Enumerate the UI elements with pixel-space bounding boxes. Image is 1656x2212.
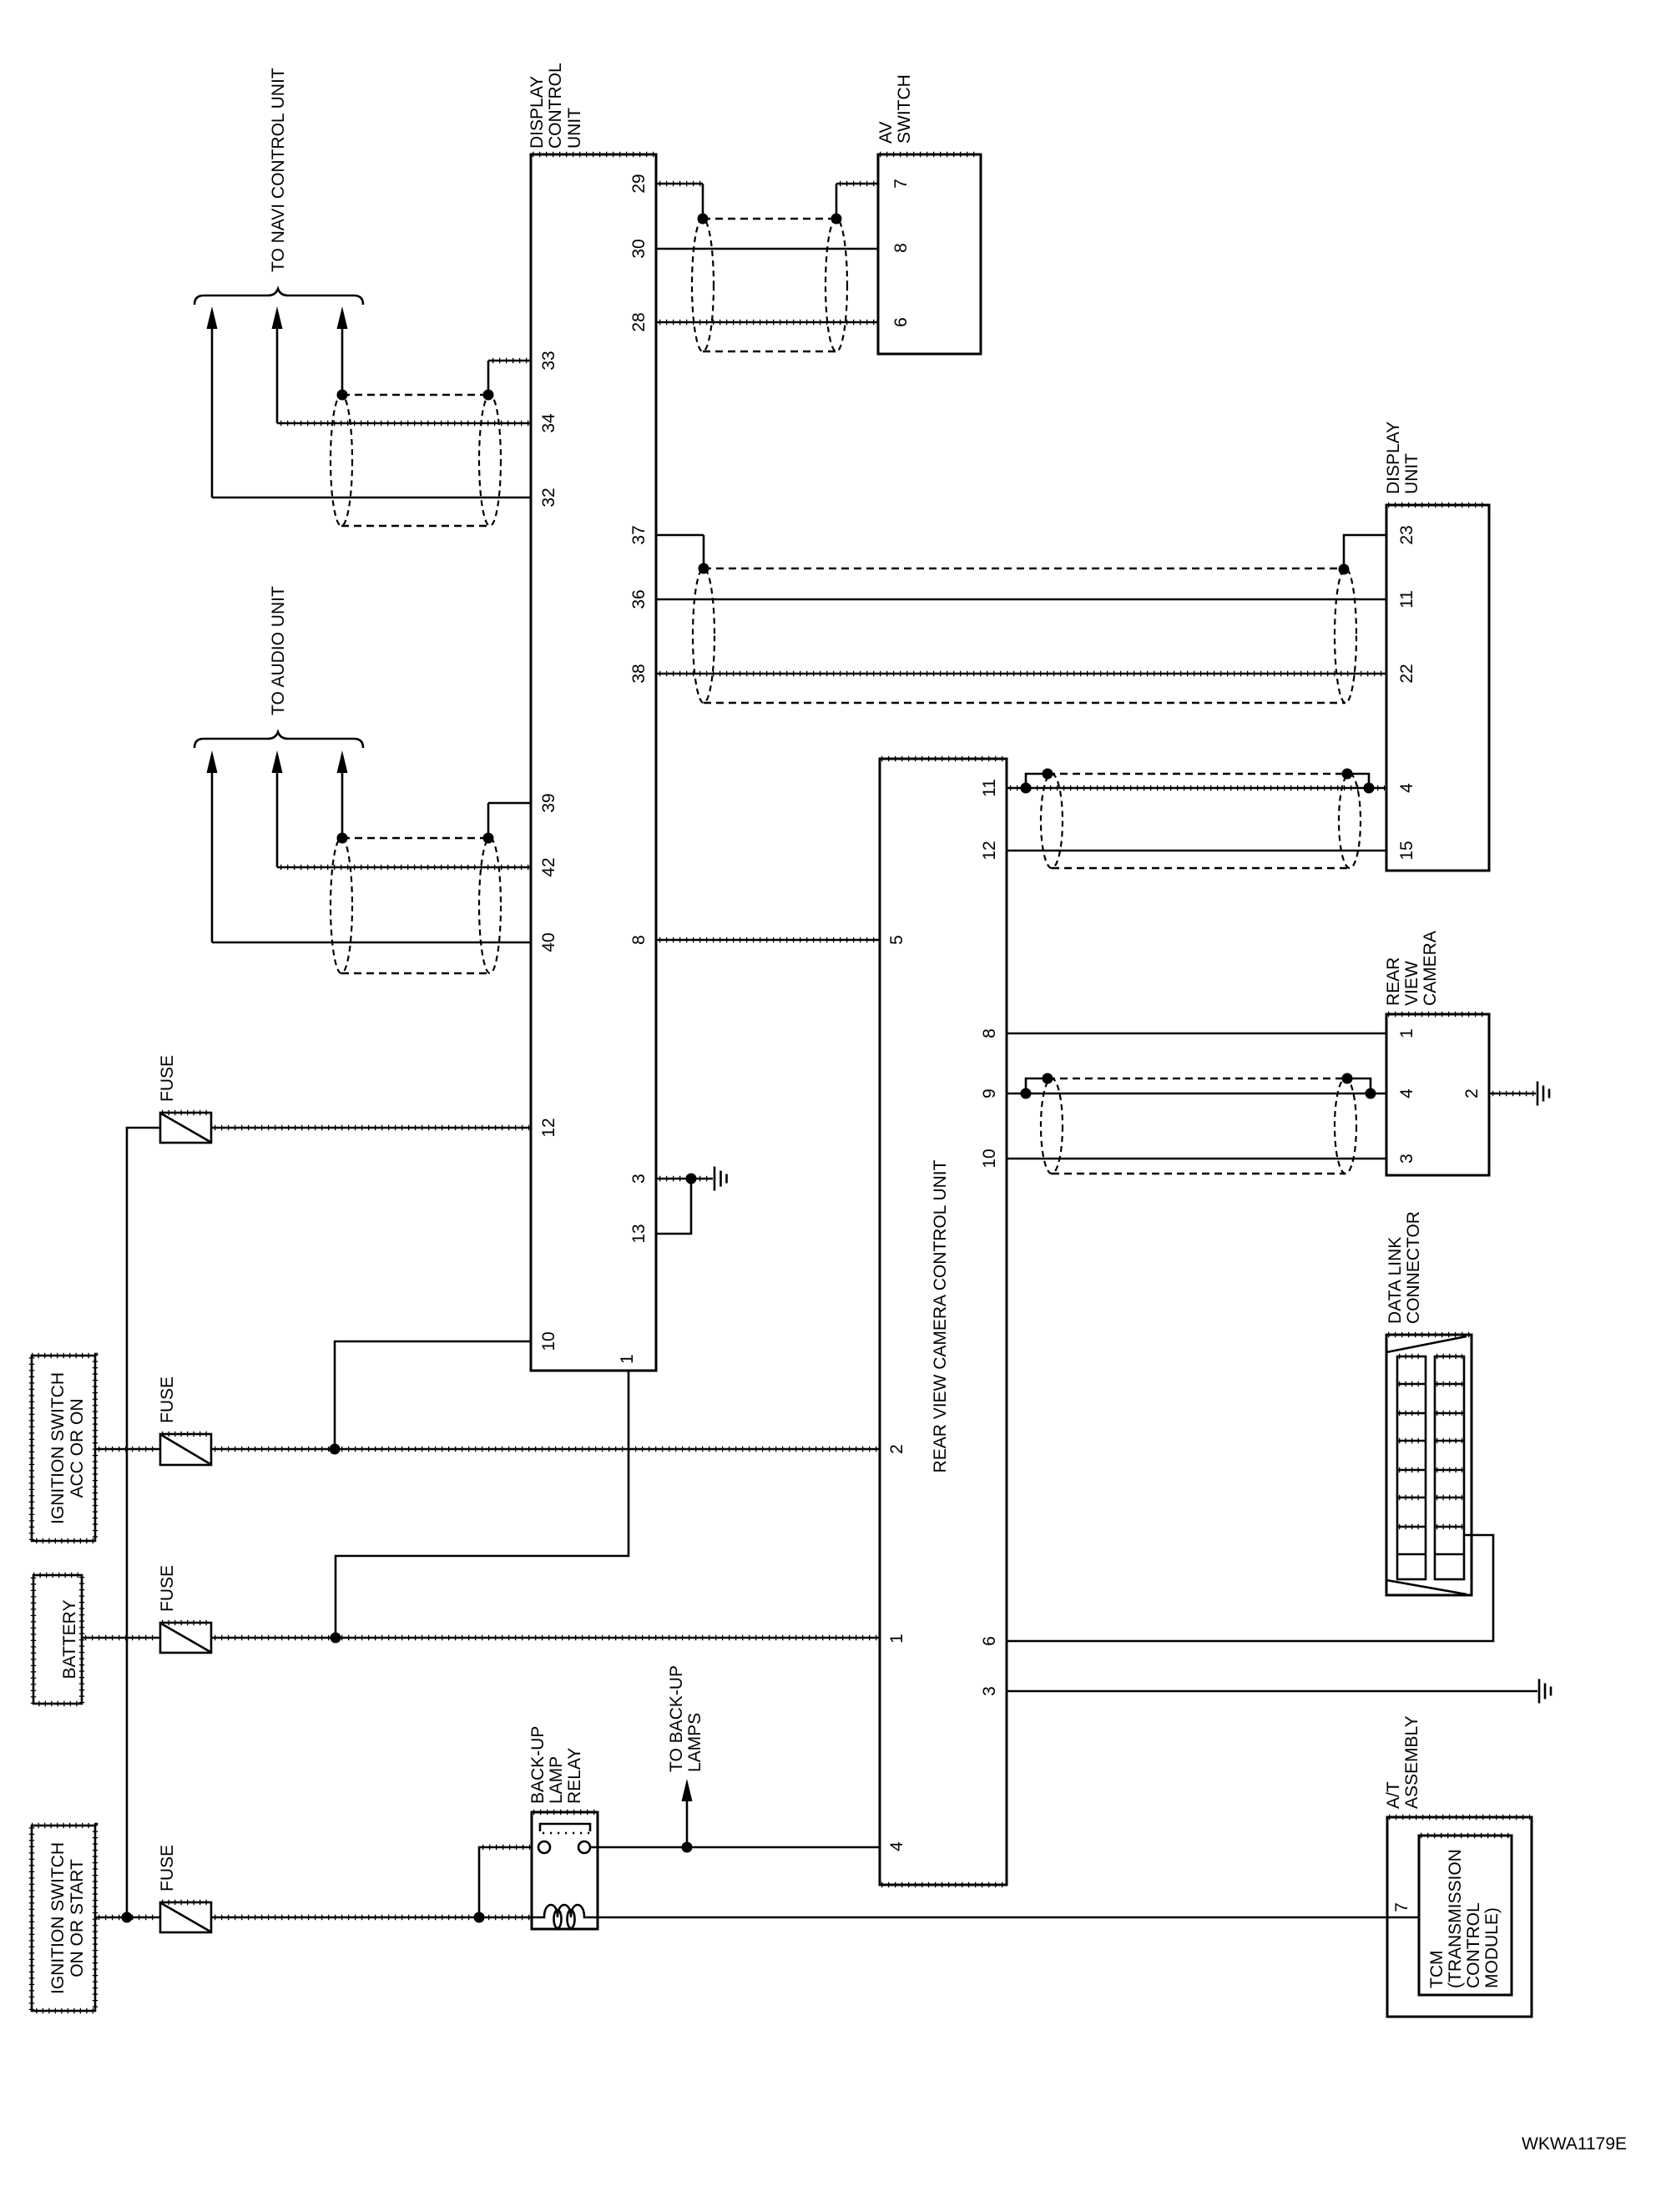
svg-text:38: 38 bbox=[629, 664, 649, 683]
fuse (ACC) bbox=[160, 1434, 211, 1465]
shield ellipse navi right bbox=[479, 395, 501, 526]
wire DLC to RVCCU pin 6 (solid) bbox=[1007, 1535, 1493, 1641]
shield ellipse audio left bbox=[331, 838, 352, 973]
label DATA LINK CONNECTOR bbox=[1386, 1211, 1423, 1324]
svg-text:CAMERA: CAMERA bbox=[1421, 931, 1440, 1006]
wire ON/START to relay coil (ticked) bbox=[211, 1917, 532, 1919]
arrow navi right bbox=[337, 306, 348, 395]
junction dot on DU pin 4 wire bbox=[1364, 783, 1375, 794]
wire RVCCU 10 to RVC 3 (solid) bbox=[1007, 1158, 1386, 1160]
shield ellipse right (AV) bbox=[825, 219, 847, 351]
box DATA LINK CONNECTOR bbox=[1386, 1335, 1472, 1595]
svg-text:IGNITION SWITCH: IGNITION SWITCH bbox=[48, 1842, 68, 1994]
svg-text:12: 12 bbox=[980, 841, 999, 860]
svg-text:LAMP: LAMP bbox=[547, 1756, 566, 1804]
label BACK-UP LAMP RELAY bbox=[528, 1726, 584, 1804]
wire pin 34 (ticked) bbox=[277, 422, 531, 425]
brace (audio) bbox=[194, 732, 363, 748]
svg-text:9: 9 bbox=[980, 1088, 999, 1098]
shield drain dashed (DU1) bbox=[704, 702, 1345, 705]
relay contact left bbox=[538, 1841, 550, 1853]
relay contact right bbox=[578, 1841, 590, 1853]
svg-text:FUSE: FUSE bbox=[158, 1376, 177, 1423]
svg-text:AV: AV bbox=[876, 122, 896, 144]
shield ellipse right (RVC) bbox=[1335, 1078, 1356, 1174]
jog up from pin 9 wire bbox=[1026, 1078, 1048, 1093]
junction dot navi left bbox=[337, 390, 348, 401]
junction dot navi right bbox=[483, 390, 494, 401]
svg-text:12: 12 bbox=[539, 1118, 558, 1137]
wire pin 38 to DU pin 22 (ticked) bbox=[656, 673, 1386, 675]
junction dot on RVC pin 4 wire bbox=[1366, 1088, 1376, 1099]
wire RVCCU 8 to RVC 1 (solid) bbox=[1007, 1033, 1386, 1035]
svg-text:3: 3 bbox=[1397, 1154, 1416, 1164]
svg-text:ASSEMBLY: ASSEMBLY bbox=[1402, 1715, 1421, 1809]
svg-text:4: 4 bbox=[887, 1841, 906, 1851]
box DISPLAY CONTROL UNIT bbox=[531, 154, 656, 1371]
wire DCU pin 3 (ticked) bbox=[656, 1178, 713, 1180]
wire battery to RVCCU pin 1 (ticked) bbox=[211, 1637, 880, 1639]
svg-text:BACK-UP: BACK-UP bbox=[528, 1726, 548, 1804]
svg-text:32: 32 bbox=[539, 487, 558, 507]
svg-text:CONTROL: CONTROL bbox=[1464, 1902, 1483, 1988]
svg-text:36: 36 bbox=[629, 589, 649, 609]
junction dot shield right (DU1) bbox=[1339, 564, 1350, 575]
junction dot shield left (DU2) bbox=[1043, 769, 1053, 780]
wire pin 28 to AV pin 6 (ticked) bbox=[656, 321, 878, 324]
svg-text:10: 10 bbox=[539, 1331, 558, 1351]
svg-text:BATTERY: BATTERY bbox=[60, 1600, 79, 1679]
svg-text:ON OR START: ON OR START bbox=[68, 1859, 87, 1977]
svg-text:LAMPS: LAMPS bbox=[685, 1713, 704, 1772]
shield wire dashed (DU1) bbox=[704, 568, 1344, 570]
shield wire dashed (AV) bbox=[703, 218, 836, 220]
shield ellipse right (DU2) bbox=[1339, 774, 1361, 868]
junction dot shield right (AV) bbox=[831, 214, 842, 225]
arrow navi left bbox=[207, 306, 218, 497]
svg-text:30: 30 bbox=[629, 239, 649, 258]
svg-text:ACC OR ON: ACC OR ON bbox=[68, 1398, 87, 1497]
wire RVCCU 11 to DU 4 (ticked) bbox=[1007, 787, 1386, 790]
junction dot audio right bbox=[483, 833, 494, 844]
label TO BACK-UP LAMPS bbox=[667, 1665, 704, 1772]
junction dot shield right (RVC) bbox=[1342, 1073, 1353, 1084]
svg-text:1: 1 bbox=[887, 1634, 906, 1644]
box AV SWITCH bbox=[878, 154, 981, 354]
junction dot shield right (DU2) bbox=[1342, 769, 1353, 780]
svg-text:6: 6 bbox=[980, 1636, 999, 1646]
svg-text:CONTROL: CONTROL bbox=[546, 63, 565, 149]
junction dot on pin 11 wire bbox=[1021, 783, 1032, 794]
wire jog 29 down bbox=[702, 184, 704, 219]
label DISPLAY CONTROL UNIT bbox=[528, 63, 584, 149]
svg-text:33: 33 bbox=[539, 351, 558, 370]
svg-text:TO BACK-UP: TO BACK-UP bbox=[667, 1665, 686, 1772]
svg-text:VIEW: VIEW bbox=[1402, 961, 1421, 1006]
svg-text:UNIT: UNIT bbox=[565, 108, 584, 149]
svg-text:DATA LINK: DATA LINK bbox=[1386, 1237, 1405, 1324]
wire pin 29 (ticked) bbox=[656, 183, 703, 185]
svg-text:3: 3 bbox=[980, 1686, 999, 1696]
wire DCU pin 13 (solid) bbox=[656, 1179, 691, 1234]
ground (display control unit) bbox=[714, 1167, 727, 1191]
svg-text:A/T: A/T bbox=[1384, 1781, 1403, 1809]
svg-text:4: 4 bbox=[1397, 1088, 1416, 1098]
wire DCU pin 8 to RVCCU pin 5 (ticked) bbox=[656, 939, 880, 942]
wire branch up to relay switch (ticked) bbox=[479, 1847, 532, 1917]
svg-text:REAR: REAR bbox=[1384, 957, 1403, 1006]
svg-text:37: 37 bbox=[629, 525, 649, 544]
shield wire dashed (DU2) bbox=[1048, 773, 1347, 775]
box REAR VIEW CAMERA bbox=[1386, 1014, 1489, 1175]
svg-text:42: 42 bbox=[539, 857, 558, 876]
svg-text:CONNECTOR: CONNECTOR bbox=[1404, 1211, 1423, 1324]
svg-text:RELAY: RELAY bbox=[565, 1748, 584, 1804]
wire pin 42 (ticked) bbox=[277, 866, 531, 869]
wire ON/START feed (ticked) bbox=[95, 1917, 160, 1919]
wire DCU pin 10 branch (solid) bbox=[335, 1341, 531, 1449]
svg-text:23: 23 bbox=[1397, 525, 1416, 544]
svg-text:TO AUDIO UNIT: TO AUDIO UNIT bbox=[269, 586, 288, 715]
svg-text:IGNITION SWITCH: IGNITION SWITCH bbox=[48, 1372, 68, 1524]
junction dot battery / DCU pin 1 branch bbox=[331, 1633, 341, 1644]
svg-text:15: 15 bbox=[1397, 841, 1416, 860]
label AV SWITCH bbox=[876, 74, 914, 144]
svg-text:TO NAVI CONTROL UNIT: TO NAVI CONTROL UNIT bbox=[269, 68, 288, 272]
shield drain dashed (audio) bbox=[341, 972, 490, 975]
svg-text:FUSE: FUSE bbox=[158, 1055, 177, 1102]
svg-text:FUSE: FUSE bbox=[158, 1845, 177, 1891]
svg-text:11: 11 bbox=[1397, 590, 1416, 609]
fuse (battery) bbox=[160, 1623, 211, 1653]
svg-text:5: 5 bbox=[887, 935, 906, 945]
svg-text:1: 1 bbox=[618, 1354, 637, 1364]
svg-text:28: 28 bbox=[629, 312, 649, 331]
wire pin 30 to AV pin 8 (solid) bbox=[656, 248, 878, 250]
svg-text:3: 3 bbox=[629, 1174, 649, 1184]
svg-text:13: 13 bbox=[629, 1224, 649, 1243]
arrow TO BACK-UP LAMPS bbox=[682, 1779, 693, 1847]
svg-text:34: 34 bbox=[539, 413, 558, 433]
wire bus vertical to pin 12 fuse bbox=[127, 1128, 160, 1917]
shield ellipse navi left bbox=[331, 395, 352, 526]
svg-text:40: 40 bbox=[539, 932, 558, 952]
label IGNITION SWITCH ON OR START bbox=[48, 1842, 87, 1994]
label REAR VIEW CAMERA bbox=[1384, 931, 1440, 1006]
arrow audio left bbox=[207, 750, 218, 942]
wire RVCCU pin 3 to ground (solid) bbox=[1007, 1690, 1537, 1693]
svg-text:4: 4 bbox=[1397, 783, 1416, 793]
svg-text:UNIT: UNIT bbox=[1402, 453, 1421, 494]
label DISPLAY UNIT bbox=[1384, 422, 1421, 494]
relay switch bracket bbox=[540, 1824, 590, 1833]
svg-text:2: 2 bbox=[887, 1444, 906, 1454]
junction dot TO BACK-UP LAMPS bbox=[682, 1842, 693, 1853]
shield wire dashed (RVC) bbox=[1048, 1078, 1347, 1080]
svg-text:8: 8 bbox=[891, 243, 911, 253]
wire relay coil to TCM pin 7 (solid) bbox=[598, 1917, 1419, 1919]
label A/T ASSEMBLY bbox=[1384, 1715, 1421, 1809]
junction dot ACC / DCU pin 10 branch bbox=[330, 1444, 341, 1455]
wire DCU pin 1 branch (solid) bbox=[336, 1371, 629, 1638]
wire jog to DU pin 23 bbox=[1344, 535, 1386, 569]
box IGNITION SWITCH ACC OR ON bbox=[32, 1356, 95, 1541]
svg-text:6: 6 bbox=[891, 317, 911, 327]
svg-text:8: 8 bbox=[980, 1028, 999, 1038]
jog down to RVC pin 4 wire bbox=[1347, 1078, 1371, 1093]
wire pin 37 (solid) bbox=[656, 534, 704, 537]
box REAR VIEW CAMERA CONTROL UNIT bbox=[880, 759, 1007, 1885]
svg-text:2: 2 bbox=[1462, 1088, 1482, 1098]
svg-text:DISPLAY: DISPLAY bbox=[1384, 422, 1403, 494]
shield ellipse left (DU2) bbox=[1041, 774, 1063, 868]
shield drain dashed (navi) bbox=[341, 525, 490, 528]
wire pin 36 to DU pin 11 (solid) bbox=[656, 598, 1386, 601]
wire ACC feed (ticked) bbox=[95, 1448, 160, 1451]
svg-text:7: 7 bbox=[1392, 1902, 1411, 1912]
wire ACC to RVCCU pin 2 (ticked) bbox=[211, 1448, 880, 1451]
wire jog 33 down bbox=[487, 361, 490, 395]
svg-text:7: 7 bbox=[891, 179, 911, 189]
box BATTERY bbox=[33, 1575, 82, 1704]
shield drain dashed (RVC) bbox=[1052, 1173, 1345, 1175]
shield drain dashed (AV) bbox=[703, 351, 836, 353]
ground (RVCCU pin 3) bbox=[1539, 1679, 1551, 1704]
svg-text:39: 39 bbox=[539, 793, 558, 812]
box DISPLAY UNIT bbox=[1386, 505, 1489, 871]
svg-text:1: 1 bbox=[1397, 1028, 1416, 1038]
wire RVCCU 9 to RVC 4 (solid) bbox=[1007, 1093, 1386, 1095]
junction dot audio left bbox=[337, 833, 348, 844]
junction dot shield left (RVC) bbox=[1043, 1073, 1053, 1084]
wire jog up to AV pin 7 bbox=[836, 184, 838, 219]
svg-text:FUSE: FUSE bbox=[158, 1565, 177, 1612]
svg-text:22: 22 bbox=[1397, 664, 1416, 683]
svg-text:(TRANSMISSION: (TRANSMISSION bbox=[1446, 1849, 1465, 1988]
wire battery feed (ticked) bbox=[82, 1637, 160, 1639]
relay coil bbox=[532, 1905, 598, 1928]
shield ellipse left (RVC) bbox=[1041, 1078, 1063, 1174]
svg-text:11: 11 bbox=[980, 779, 999, 797]
junction dot on pin 9 wire bbox=[1021, 1088, 1032, 1099]
wire pin 33 (ticked) bbox=[488, 360, 531, 362]
wire pin 32 (solid) bbox=[212, 497, 531, 499]
DLC pin column right bbox=[1435, 1356, 1464, 1579]
shield wire dashed (navi) bbox=[342, 394, 488, 396]
shield ellipse audio right bbox=[479, 838, 501, 973]
brace (navi) bbox=[194, 289, 363, 305]
fuse (pin 12) bbox=[160, 1113, 211, 1143]
wire pin 39 (solid) bbox=[488, 802, 531, 805]
svg-text:WKWA1179E: WKWA1179E bbox=[1522, 2134, 1627, 2154]
shield ellipse left (AV) bbox=[692, 219, 714, 351]
shield wire dashed (audio) bbox=[342, 837, 488, 840]
wire jog 37 down bbox=[703, 535, 705, 568]
svg-text:MODULE): MODULE) bbox=[1482, 1907, 1502, 1988]
arrow navi middle bbox=[272, 306, 283, 423]
svg-text:SWITCH: SWITCH bbox=[895, 74, 914, 144]
box IGNITION SWITCH ON OR START bbox=[32, 1826, 95, 2011]
junction dot shield left (DU1) bbox=[699, 563, 709, 574]
wire fuse to DCU pin 12 (ticked) bbox=[211, 1127, 531, 1129]
shield drain dashed (DU2) bbox=[1052, 867, 1350, 870]
jog down to DU pin 4 wire bbox=[1347, 774, 1369, 788]
fuse (ON/START) bbox=[160, 1902, 211, 1932]
wire relay switch to RVCCU pin 4 (solid) bbox=[590, 1846, 880, 1849]
ground (rear view camera) bbox=[1537, 1082, 1549, 1106]
box TCM bbox=[1419, 1836, 1512, 1995]
wire stub AV pin 7 (ticked) bbox=[836, 183, 878, 185]
wire RVCCU 12 to DU 15 (solid) bbox=[1007, 850, 1386, 852]
wire RVC pin 2 to ground (ticked) bbox=[1489, 1093, 1536, 1095]
svg-text:REAR VIEW CAMERA CONTROL UNIT: REAR VIEW CAMERA CONTROL UNIT bbox=[931, 1159, 950, 1472]
junction dot bus / ON-START bbox=[122, 1912, 133, 1923]
svg-text:DISPLAY: DISPLAY bbox=[528, 76, 547, 149]
junction dot shield left (AV) bbox=[698, 214, 709, 225]
label IGNITION SWITCH ACC OR ON bbox=[48, 1372, 87, 1524]
shield ellipse left (DU1) bbox=[693, 568, 714, 703]
wire pin 40 (solid) bbox=[212, 942, 531, 944]
box BACK-UP LAMP RELAY bbox=[532, 1812, 598, 1929]
arrow audio right bbox=[337, 750, 348, 838]
DLC pin column left bbox=[1397, 1356, 1426, 1579]
svg-text:8: 8 bbox=[629, 935, 649, 945]
arrow audio middle bbox=[272, 750, 283, 867]
svg-text:10: 10 bbox=[980, 1149, 999, 1168]
shield ellipse right (DU1) bbox=[1335, 568, 1356, 703]
svg-text:TCM: TCM bbox=[1427, 1951, 1446, 1989]
box A/T ASSEMBLY bbox=[1387, 1817, 1532, 2017]
svg-text:29: 29 bbox=[629, 174, 649, 193]
junction dot relay switch branch bbox=[474, 1912, 485, 1923]
jog up from pin 11 wire bbox=[1026, 774, 1048, 788]
junction dot pin 3 bbox=[686, 1174, 697, 1184]
wire jog 39 down bbox=[487, 803, 490, 838]
label TCM (TRANSMISSION CONTROL MODULE) bbox=[1427, 1849, 1502, 1988]
